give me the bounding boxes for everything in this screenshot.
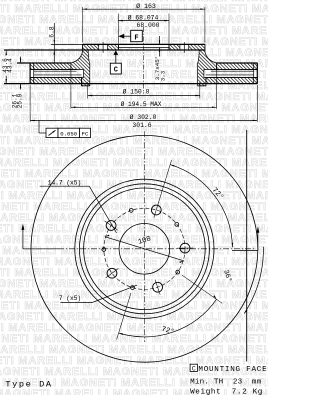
svg-text:Type DA: Type DA: [5, 380, 52, 390]
svg-text:Ø 68.074: Ø 68.074: [128, 14, 159, 22]
svg-text:14.7 (x5): 14.7 (x5): [48, 179, 81, 186]
svg-text:36°: 36°: [221, 269, 234, 284]
svg-text:Ø 150.8: Ø 150.8: [123, 87, 150, 95]
svg-text:C: C: [114, 67, 118, 75]
svg-text:301.6: 301.6: [132, 122, 151, 129]
svg-text:Ø 194.5 MAX: Ø 194.5 MAX: [121, 101, 162, 108]
svg-text:43.4: 43.4: [7, 58, 14, 73]
svg-text:3.3: 3.3: [160, 70, 167, 81]
svg-text:72°: 72°: [210, 186, 226, 202]
svg-text:0.050: 0.050: [60, 131, 77, 138]
svg-text:6.8: 6.8: [49, 26, 56, 38]
svg-text:C: C: [192, 365, 196, 372]
svg-text:7 (x5): 7 (x5): [59, 295, 81, 302]
svg-text:FC: FC: [82, 131, 89, 138]
svg-text:Ø 302.0: Ø 302.0: [130, 113, 157, 121]
svg-text:Ø 163: Ø 163: [136, 2, 156, 10]
svg-text:68.000: 68.000: [136, 22, 159, 29]
svg-text:Min. TH 23 mm: Min. TH 23 mm: [190, 379, 262, 387]
svg-text:F: F: [134, 34, 138, 42]
svg-text:MOUNTING FACE: MOUNTING FACE: [198, 366, 267, 374]
svg-text:108: 108: [137, 235, 152, 246]
svg-text:25.9: 25.9: [16, 93, 23, 108]
svg-text:Weight 7.2 Kg: Weight 7.2 Kg: [190, 389, 263, 395]
